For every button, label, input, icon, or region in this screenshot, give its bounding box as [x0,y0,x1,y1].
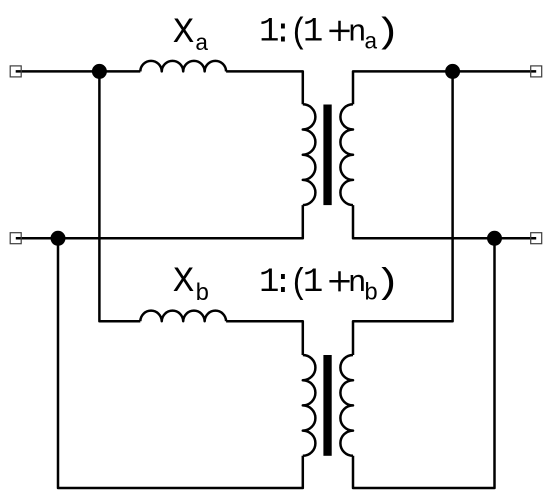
wire from T2 primary bottom along bottom rail up to node B1 [58,238,303,488]
wire from port 1 terminal to node A1 [16,70,141,73]
inductor Xb [140,311,226,322]
value label 1:(1+nb) turns ratio of T2 [259,263,401,307]
svg-text:X: X [173,261,194,302]
transformer T1 core bar [323,105,331,206]
wire from inductor Xa to T1 primary top [226,71,303,104]
svg-text:): ) [374,263,400,303]
wire from T1 secondary bottom along mid rail to port 4 terminal [353,205,536,238]
wire from node A2 down to T2 secondary top [353,71,453,355]
svg-text:1: 1 [303,264,323,302]
terminal port 2 (mid left) [10,233,21,244]
svg-text:X: X [173,12,194,53]
svg-text:b: b [195,281,209,308]
wire from port 3 terminal to T1 secondary top [353,71,536,104]
terminal port 1 (top left) [10,66,21,77]
value label 1:(1+na) turns ratio of T1 [259,12,401,55]
value label Xa [173,12,209,57]
junction node A1 [92,64,107,79]
terminal port 3 (top right) [531,66,542,77]
transformer T1 primary winding [303,104,316,205]
wire from T1 primary bottom along mid rail to port 2 terminal [16,205,303,238]
wire from inductor Xb to T2 primary top [226,321,303,355]
transformer T2 core bar [323,355,331,456]
wire from node A1 down to inductor Xb row [99,71,140,321]
junction node B1 [51,231,66,246]
svg-text:): ) [374,13,400,53]
inductor Xa [140,61,226,72]
transformer T2 secondary winding [340,355,353,456]
wire from T2 secondary bottom along bottom rail up to node B2 [353,238,495,488]
transformer T1 secondary winding [340,104,353,205]
junction node A2 [445,64,460,79]
value label Xb [173,261,210,308]
svg-text:a: a [195,31,209,57]
svg-text:1: 1 [303,14,323,52]
terminal port 4 (mid right) [531,233,542,244]
junction node B2 [487,231,502,246]
transformer T2 primary winding [303,355,316,456]
